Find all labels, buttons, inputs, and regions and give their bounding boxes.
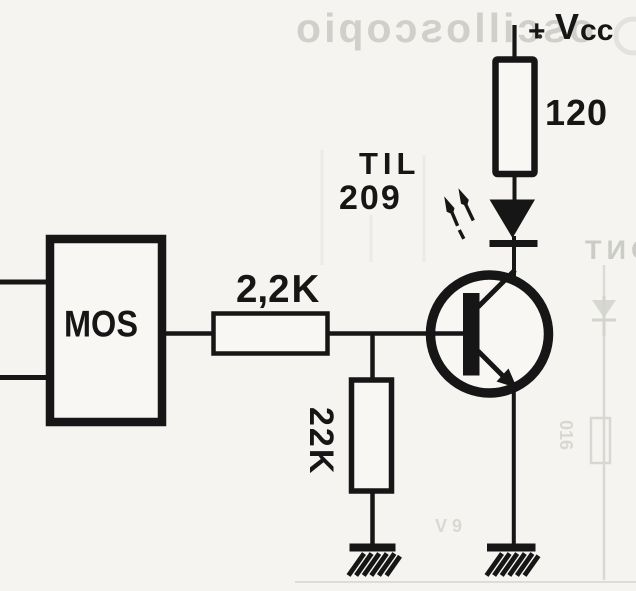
svg-text:TIL: TIL — [359, 146, 421, 181]
resistor R2 — [214, 314, 328, 354]
wire +Vcc to R1 — [512, 25, 516, 62]
wire R1 to LED — [513, 174, 517, 202]
ink speck — [538, 34, 542, 38]
MOS input wire top — [0, 280, 46, 285]
svg-text:+: + — [528, 15, 546, 48]
ground GND1 bar — [350, 544, 396, 552]
transistor Q1 body — [431, 275, 549, 393]
ground GND2 bar — [487, 544, 536, 552]
wire MOS to R2 — [165, 331, 213, 336]
transistor Q1 emitter arrowhead — [497, 369, 518, 389]
svg-text:120: 120 — [545, 92, 608, 133]
scan show-through: faint vertical wire right — [603, 265, 606, 296]
base wire R2 to Q1 — [328, 331, 464, 336]
scan show-through: faint diode symbol right — [592, 296, 616, 336]
transistor Q1 base lead (inside) — [432, 331, 464, 336]
svg-text:22K: 22K — [302, 407, 340, 475]
LED light emission arrow 2 — [458, 188, 473, 220]
svg-text:016: 016 — [556, 420, 576, 450]
wire R3 to ground — [370, 491, 375, 545]
transistor Q1 collector lead — [478, 270, 515, 307]
svg-text:2,2K: 2,2K — [236, 268, 320, 311]
scan show-through: faint column lines near TIL — [321, 150, 324, 265]
scan show-through: faint resistor right — [591, 418, 610, 463]
svg-text:MOS: MOS — [64, 304, 138, 345]
scan show-through: faint ring top-right corner — [616, 19, 636, 53]
LED D1 anode triangle — [490, 200, 536, 239]
scan show-through: faint rule bottom — [295, 581, 636, 583]
transistor Q1 base bar — [463, 293, 480, 376]
LED D1 cathode bar — [490, 240, 538, 247]
svg-text:209: 209 — [339, 179, 402, 217]
resistor R3 — [352, 380, 392, 491]
resistor R1 — [496, 60, 535, 175]
wire LED to collector — [512, 236, 516, 280]
node base junction wire down — [370, 334, 375, 381]
ground GND1 hatching — [349, 554, 401, 576]
transistor Q1 emitter lead — [478, 351, 505, 378]
MOS input wire bottom — [0, 375, 46, 380]
scan show-through: mirrored magazine title — [293, 5, 594, 51]
svg-text:ONT: ONT — [580, 235, 636, 265]
MOS block — [50, 239, 162, 422]
emitter wire Q1 to ground — [512, 386, 516, 545]
LED light emission arrow 1 — [444, 196, 464, 238]
svg-text:V 9: V 9 — [435, 516, 462, 536]
ground GND2 hatching — [487, 554, 539, 576]
svg-text:oscilloscopio: oscilloscopio — [293, 5, 594, 51]
